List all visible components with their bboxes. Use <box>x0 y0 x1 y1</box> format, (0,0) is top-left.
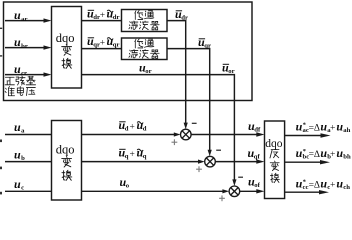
wire output phase b <box>285 161 321 163</box>
label 换 in top box <box>62 58 72 68</box>
label u_or-bar (before drop) <box>222 61 235 76</box>
label u_cr <box>14 62 27 77</box>
label u_qr-bar (filter 2 output) <box>198 35 211 50</box>
arrowhead or vertical into summer 3 <box>232 179 236 186</box>
minus sign at summer 2 <box>216 149 221 151</box>
svg-text:dr: dr <box>113 14 120 21</box>
minus sign at summer 3 <box>238 176 243 178</box>
wire output phase c <box>285 191 320 193</box>
label u_dr-bar + u_dr-tilde <box>87 7 120 22</box>
arrowhead u_qf into inverse box <box>256 159 264 163</box>
svg-text:bh: bh <box>343 154 351 161</box>
svg-text:+: + <box>100 11 105 21</box>
svg-text:dqo: dqo <box>56 31 75 45</box>
svg-text:d: d <box>125 126 129 133</box>
arrowhead u_cr into dqo <box>44 72 52 76</box>
label 低通滤波器 filter 2 <box>129 39 159 58</box>
label 低通滤波器 filter 1 <box>129 10 159 29</box>
arrowhead uo row into summer 3 <box>222 189 229 193</box>
wire u_or from dqo box down to summer 3 <box>82 75 235 181</box>
label u_c <box>14 177 24 192</box>
svg-text:ar: ar <box>21 16 27 23</box>
label 变 in bottom box <box>62 157 72 168</box>
label u*_ac = delta u_a + u_ah <box>296 119 351 134</box>
wire u_a <box>5 134 52 136</box>
label u_of <box>248 175 261 190</box>
plus sign at summer 2 <box>196 166 202 172</box>
svg-text:+: + <box>130 150 135 160</box>
arrowhead u_br into dqo <box>44 45 52 49</box>
svg-text:u: u <box>14 35 21 49</box>
label u_dr-bar (filter 1 output) <box>175 7 188 22</box>
arrowhead qr vertical into summer 2 <box>208 150 212 157</box>
arrowhead output a <box>321 133 331 137</box>
summer 2 (q channel) <box>205 156 216 167</box>
label u_ar <box>14 8 27 23</box>
svg-text:qr: qr <box>204 43 211 50</box>
wire ud row to summer 1 <box>82 134 175 136</box>
svg-text:u: u <box>14 62 21 76</box>
label 反 in inverse box <box>270 150 279 158</box>
svg-text:qf: qf <box>254 153 261 160</box>
label u_br <box>14 35 28 50</box>
plus sign at summer 1 <box>172 139 178 145</box>
svg-text:u: u <box>14 8 21 22</box>
label u_d-bar + u_d-tilde <box>119 118 147 133</box>
wire summer3 to inverse box (u_of) <box>240 190 257 192</box>
label u_qf <box>248 146 261 161</box>
block low-pass filter 1 <box>122 10 168 32</box>
arrowhead u_of into inverse box <box>256 189 264 193</box>
wire u_ar <box>5 20 45 22</box>
svg-text:u: u <box>14 148 21 162</box>
label 变 in inverse box <box>270 161 279 171</box>
arrowhead output b <box>320 160 330 164</box>
minus sign at summer 1 <box>192 122 197 124</box>
svg-text:dr: dr <box>181 15 188 22</box>
block low-pass filter 2 <box>122 38 168 60</box>
plus sign at summer 3 <box>219 195 225 201</box>
label u_q-bar + u_q-tilde <box>119 146 147 161</box>
summer 3 (o channel) <box>229 186 240 197</box>
svg-text:of: of <box>254 182 260 189</box>
svg-text:df: df <box>254 127 261 134</box>
arrowhead u_ar into dqo <box>44 18 52 22</box>
svg-text:b: b <box>21 155 25 162</box>
wire u_b <box>5 161 52 163</box>
svg-text:u: u <box>14 120 21 134</box>
svg-text:br: br <box>21 43 28 50</box>
label sine reference voltage 正弦基准电压 <box>5 76 35 96</box>
label u_a <box>14 120 25 135</box>
label u_b <box>14 148 25 163</box>
wire uo row to summer 3 <box>82 190 224 192</box>
svg-text:+: + <box>130 122 135 132</box>
label u_df <box>248 119 261 134</box>
svg-text:ah: ah <box>343 127 350 134</box>
svg-text:+: + <box>330 181 335 191</box>
wire uq row to summer 2 <box>82 161 199 163</box>
block dqo inverse transform <box>265 121 285 199</box>
wire output phase a <box>285 135 322 137</box>
wire u_qr-bar from filter 2 down to summer 2 <box>167 49 210 151</box>
svg-text:or: or <box>145 68 151 75</box>
svg-text:dqo: dqo <box>56 143 75 157</box>
label u*_bc = delta u_b + u_bh <box>296 146 351 161</box>
wire u_br <box>5 47 45 49</box>
svg-text:Δ: Δ <box>314 150 320 160</box>
outer box: reference voltage generator <box>4 2 253 101</box>
svg-text:Δ: Δ <box>314 181 320 191</box>
label 换 in bottom box <box>62 170 72 180</box>
svg-text:q: q <box>125 153 129 160</box>
wire dr output to filter 1 <box>82 20 122 22</box>
wire u_c <box>5 190 52 192</box>
svg-text:+: + <box>330 123 335 133</box>
label u_qr-bar + u_qr-tilde <box>87 34 120 49</box>
svg-text:q: q <box>143 153 147 160</box>
wire summer2 to inverse box (u_qf) <box>215 161 257 163</box>
svg-text:Δ: Δ <box>314 123 320 133</box>
svg-text:u: u <box>14 177 21 191</box>
arrowhead uq row into summer 2 <box>198 160 205 164</box>
label 变 in top box <box>62 45 72 56</box>
block dqo transform (bottom) <box>52 121 82 201</box>
arrowhead output c <box>319 190 329 194</box>
block dqo transform (top) <box>52 7 82 89</box>
svg-text:qr: qr <box>113 42 120 49</box>
summer 1 (d channel) <box>181 129 192 140</box>
arrowhead u_df into inverse box <box>256 132 264 136</box>
label u_o <box>120 175 130 190</box>
wire qr output to filter 2 <box>82 48 122 50</box>
label u*_cc = delta u_c + u_ch <box>296 177 351 192</box>
svg-text:dqo: dqo <box>265 138 283 150</box>
svg-text:+: + <box>330 150 335 160</box>
edge crop marks <box>0 28 2 195</box>
label 换 in inverse box <box>270 173 279 182</box>
svg-text:+: + <box>100 38 105 48</box>
svg-text:d: d <box>143 126 147 133</box>
arrowhead dr vertical into summer 1 <box>184 123 188 130</box>
svg-text:or: or <box>228 68 234 75</box>
wire summer1 to inverse box (u_df) <box>191 134 257 136</box>
wire u_cr <box>5 74 45 76</box>
label u_or (after dqo box) <box>139 61 152 76</box>
svg-text:c: c <box>21 185 24 192</box>
wire u_dr-bar from filter 1 down to summer 1 <box>167 21 186 124</box>
svg-text:ch: ch <box>343 184 350 191</box>
arrowhead ud row into summer 1 <box>174 132 181 136</box>
